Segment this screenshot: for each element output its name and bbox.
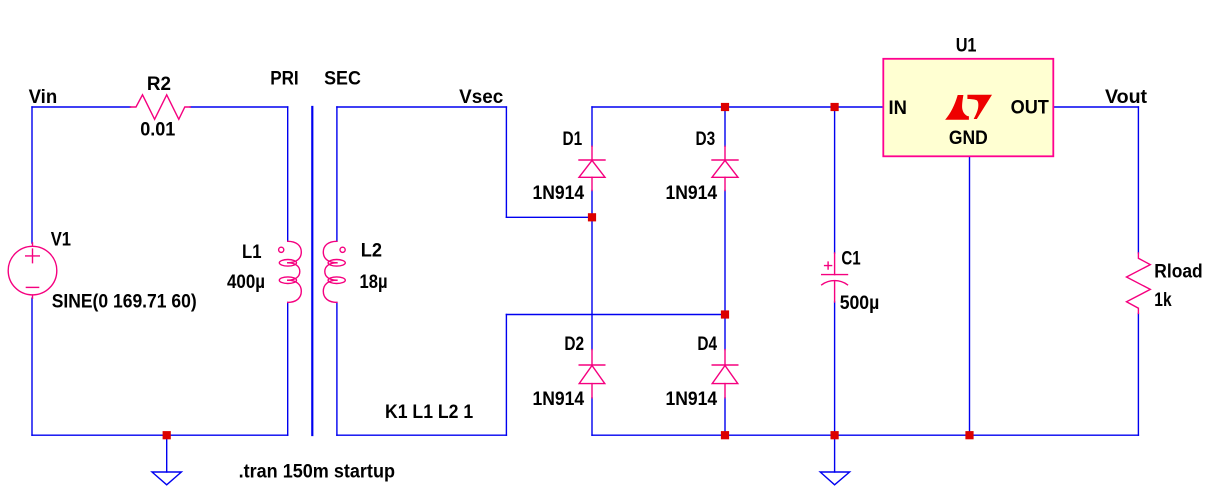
junction node top rail D3 (721, 103, 729, 111)
wire Vsec top (337, 106, 507, 108)
wire L2 bottom (336, 302, 338, 435)
svg-text:L1: L1 (242, 242, 262, 263)
U1 LT logo (945, 95, 992, 120)
svg-text:IN: IN (889, 98, 907, 119)
svg-text:L2: L2 (361, 241, 382, 262)
wire V1 bottom lead (31, 298, 33, 435)
diode D2 (579, 350, 605, 398)
svg-text:1N914: 1N914 (666, 389, 718, 410)
diode D4 (712, 350, 738, 398)
svg-text:1k: 1k (1154, 290, 1172, 311)
svg-text:500µ: 500µ (840, 293, 880, 314)
ground (secondary) (820, 435, 849, 485)
svg-text:D1: D1 (563, 129, 583, 150)
svg-text:Vout: Vout (1105, 87, 1148, 108)
wire L1 top (287, 107, 289, 241)
svg-text:1N914: 1N914 (533, 389, 585, 410)
junction node bottom U1 GND (965, 431, 973, 439)
svg-text:.tran 150m startup: .tran 150m startup (239, 462, 395, 483)
svg-text:1N914: 1N914 (666, 183, 718, 204)
svg-text:400µ: 400µ (227, 272, 265, 293)
svg-text:PRI: PRI (270, 68, 299, 89)
wire secondary bottom rail (337, 434, 507, 436)
svg-text:SINE(0 169.71 60): SINE(0 169.71 60) (52, 291, 197, 312)
wire D1 column (591, 107, 593, 435)
wire OUT to Rload (1053, 106, 1138, 108)
diode D1 (579, 146, 605, 190)
junction node bottom D4 (721, 431, 729, 439)
wire secondary bottom riser (505, 315, 507, 436)
svg-text:U1: U1 (956, 36, 977, 57)
junction node bottom C1 (831, 431, 839, 439)
svg-text:18µ: 18µ (360, 272, 388, 293)
resistor R2 (131, 95, 191, 120)
wire Vsec drop (505, 107, 507, 217)
wire top-left Vin rail (32, 106, 131, 108)
wire secondary to D3 D4 node (506, 314, 725, 316)
wire top DC rail (592, 106, 883, 108)
wire D3 column (724, 107, 726, 435)
svg-text:0.01: 0.01 (140, 119, 176, 140)
svg-text:K1 L1 L2 1: K1 L1 L2 1 (385, 402, 474, 423)
svg-text:Rload: Rload (1154, 262, 1202, 283)
inductor L2 (323, 241, 345, 302)
junction node top rail C1 (831, 103, 839, 111)
wire bottom DC rail (592, 434, 1138, 436)
capacitor C1 (822, 253, 848, 302)
wire Vsec to D1 D2 node (506, 216, 592, 218)
svg-text:C1: C1 (841, 249, 861, 270)
svg-text:OUT: OUT (1011, 98, 1050, 119)
wire U1 GND pin (969, 156, 971, 435)
svg-text:D2: D2 (564, 334, 584, 355)
svg-text:SEC: SEC (324, 68, 361, 89)
svg-text:V1: V1 (51, 230, 72, 251)
svg-text:D3: D3 (696, 129, 716, 150)
regulator U1 box (883, 59, 1053, 157)
svg-text:R2: R2 (147, 74, 171, 95)
transformer core (311, 107, 313, 435)
junction node Vin gnd (163, 431, 171, 439)
wire L2 top (336, 107, 338, 241)
inductor L1 (279, 241, 302, 302)
wire C1 column (834, 107, 836, 435)
svg-text:1N914: 1N914 (533, 183, 585, 204)
voltage source V1 (8, 243, 57, 298)
diode D3 (712, 146, 738, 190)
svg-text:D4: D4 (697, 334, 717, 355)
junction node Vsec-D1D2 (588, 213, 596, 221)
ground (primary) (152, 435, 181, 485)
svg-text:GND: GND (949, 128, 988, 149)
svg-text:Vin: Vin (29, 87, 58, 108)
wire Rload column (1137, 107, 1139, 435)
wire left vertical V1 top lead (31, 107, 33, 243)
wire L1 bottom (287, 302, 289, 435)
junction node D3D4 mid (721, 310, 729, 318)
resistor Rload (1127, 253, 1151, 314)
wire R2 right to L1 top (190, 106, 288, 108)
svg-text:Vsec: Vsec (459, 87, 504, 108)
wire primary bottom rail (32, 434, 288, 436)
